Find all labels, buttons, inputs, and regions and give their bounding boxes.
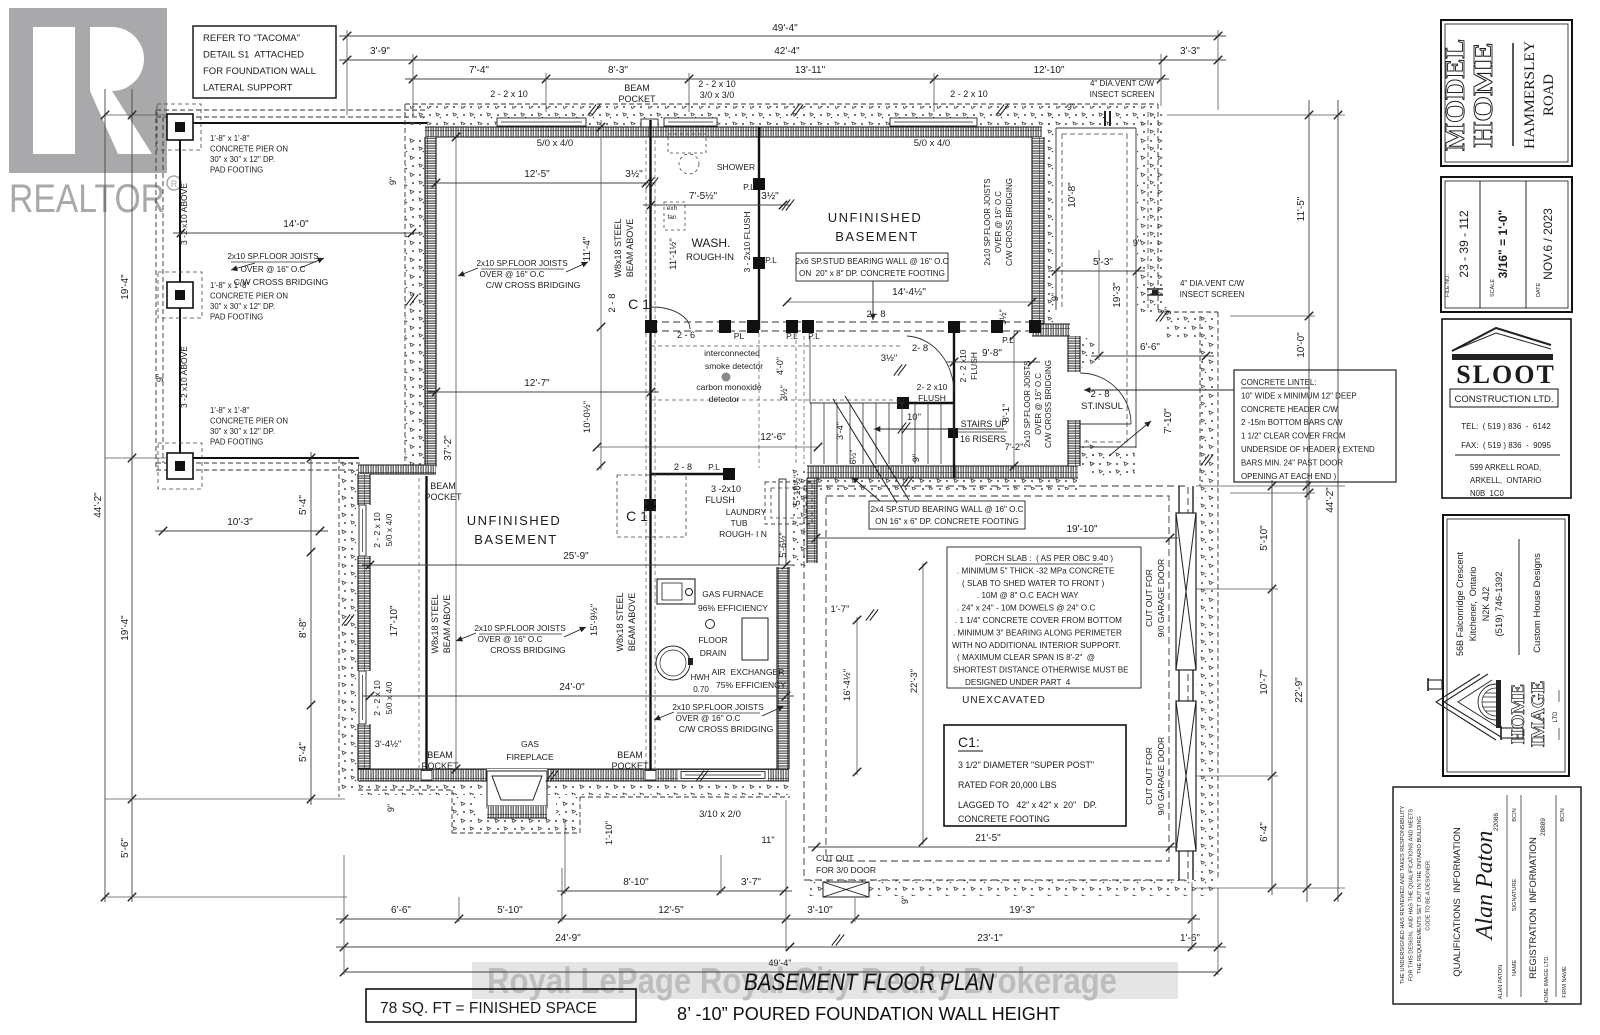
svg-text:THE UNDERSIGNED HAS REVIEWED A: THE UNDERSIGNED HAS REVIEWED AND TAKES R…: [1400, 805, 1406, 984]
svg-text:PAD FOOTING: PAD FOOTING: [210, 313, 263, 322]
svg-text:Kitchener, Ontario: Kitchener, Ontario: [1468, 567, 1478, 642]
svg-text:C/W CROSS BRIDGING: C/W CROSS BRIDGING: [1044, 360, 1053, 448]
svg-text:5'-10": 5'-10": [1259, 525, 1270, 551]
svg-text:9/0 GARAGE DOOR: 9/0 GARAGE DOOR: [1156, 559, 1166, 637]
svg-text:10'-3": 10'-3": [227, 517, 253, 528]
svg-text:OVER @ 16" O.C: OVER @ 16" O.C: [241, 265, 306, 274]
svg-text:6½": 6½": [848, 450, 858, 465]
svg-text:2 - 8: 2 - 8: [607, 293, 618, 312]
svg-text:3/10 x 2/0: 3/10 x 2/0: [699, 809, 741, 820]
svg-text:detector: detector: [709, 394, 740, 404]
svg-text:SHOWER: SHOWER: [717, 162, 755, 172]
svg-text:24'-9": 24'-9": [555, 933, 581, 944]
svg-text:UNDERSIDE OF HEADER ( EXTEND: UNDERSIDE OF HEADER ( EXTEND: [1241, 445, 1375, 454]
svg-text:ON 16" x 6" DP. CONCRETE FOOTI: ON 16" x 6" DP. CONCRETE FOOTING: [875, 517, 1019, 526]
svg-text:ARKELL, ONTARIO: ARKELL, ONTARIO: [1470, 476, 1541, 485]
svg-text:6'-4": 6'-4": [1259, 822, 1270, 842]
svg-text:CUT OUT: CUT OUT: [816, 853, 854, 863]
svg-text:. 24" x 24" - 10M DOWELS @ 24": . 24" x 24" - 10M DOWELS @ 24" O.C: [957, 604, 1095, 613]
svg-text:2 - 8: 2 - 8: [866, 309, 885, 320]
svg-text:C 1: C 1: [628, 296, 650, 312]
svg-text:P.L: P.L: [743, 182, 755, 192]
svg-text:10'-0": 10'-0": [1296, 332, 1307, 358]
svg-text:17'-10": 17'-10": [389, 605, 400, 636]
svg-text:3 - 2x10 FLUSH: 3 - 2x10 FLUSH: [742, 212, 752, 273]
svg-text:CUT OUT FOR: CUT OUT FOR: [1144, 747, 1154, 805]
svg-text:CONCRETE PIER ON: CONCRETE PIER ON: [210, 417, 288, 426]
svg-text:5/0 x 4/0: 5/0 x 4/0: [384, 681, 394, 714]
svg-text:R: R: [171, 179, 178, 189]
svg-text:PAD FOOTING: PAD FOOTING: [210, 438, 263, 447]
svg-text:P.L: P.L: [1002, 335, 1014, 345]
svg-text:REFER TO "TACOMA": REFER TO "TACOMA": [203, 33, 300, 44]
svg-text:3 -2x10: 3 -2x10: [711, 484, 741, 494]
svg-text:2 -15m BOTTOM BARS C/W: 2 -15m BOTTOM BARS C/W: [1241, 418, 1343, 427]
svg-text:2x10 SP.FLOOR JOISTS: 2x10 SP.FLOOR JOISTS: [474, 624, 566, 633]
svg-text:7'-5½": 7'-5½": [689, 191, 718, 202]
svg-text:1'-7": 1'-7": [831, 604, 850, 615]
svg-text:ROAD: ROAD: [1541, 74, 1557, 116]
svg-text:37'-2": 37'-2": [443, 435, 454, 461]
svg-text:SHORTEST DISTANCE OTHERWISE MU: SHORTEST DISTANCE OTHERWISE MUST BE: [953, 666, 1129, 675]
svg-text:3'-3": 3'-3": [1180, 46, 1200, 57]
svg-text:NAME: NAME: [1512, 960, 1518, 976]
svg-text:LAUNDRY: LAUNDRY: [726, 507, 767, 517]
svg-text:BARS MIN. 24" PAST DOOR: BARS MIN. 24" PAST DOOR: [1241, 458, 1343, 467]
svg-text:11": 11": [761, 835, 774, 846]
svg-text:3½": 3½": [625, 169, 643, 180]
svg-text:UNEXCAVATED: UNEXCAVATED: [962, 695, 1046, 706]
svg-text:9'-8": 9'-8": [982, 348, 1002, 359]
svg-text:11'-5": 11'-5": [1296, 196, 1307, 221]
svg-text:BCIN: BCIN: [1560, 808, 1566, 821]
svg-text:19'-10": 19'-10": [1066, 524, 1097, 535]
svg-text:21'-5": 21'-5": [975, 833, 1001, 844]
svg-text:24'-0": 24'-0": [559, 682, 585, 693]
svg-text:9": 9": [386, 804, 396, 812]
svg-text:2- 2 x10: 2- 2 x10: [917, 382, 948, 392]
svg-text:9/0 GARAGE DOOR: 9/0 GARAGE DOOR: [1156, 737, 1166, 815]
svg-text:smoke detector: smoke detector: [705, 361, 763, 371]
svg-text:ROUGH-IN: ROUGH-IN: [686, 252, 734, 263]
svg-text:2 - 8: 2 - 8: [674, 462, 692, 472]
svg-text:4" DIA.VENT C/W: 4" DIA.VENT C/W: [1180, 279, 1244, 288]
svg-text:3'-10": 3'-10": [807, 905, 833, 916]
svg-text:8'-1": 8'-1": [1001, 404, 1012, 423]
svg-text:DRAIN: DRAIN: [700, 648, 726, 658]
svg-text:1 1/2" CLEAR COVER FROM: 1 1/2" CLEAR COVER FROM: [1241, 432, 1346, 441]
svg-text:30" x 30" x 12" DP.: 30" x 30" x 12" DP.: [210, 155, 275, 164]
svg-text:3 -2 x10 ABOVE: 3 -2 x10 ABOVE: [179, 183, 189, 245]
svg-text:C 1: C 1: [626, 508, 648, 524]
svg-text:8'-3": 8'-3": [608, 65, 628, 76]
svg-text:22086: 22086: [1493, 813, 1500, 831]
svg-text:DESIGNED UNDER PART 4: DESIGNED UNDER PART 4: [965, 678, 1071, 687]
svg-text:P.L: P.L: [786, 331, 798, 341]
svg-text:96% EFFICIENCY: 96% EFFICIENCY: [698, 603, 768, 613]
svg-text:23'-1": 23'-1": [977, 933, 1003, 944]
svg-text:19'-4": 19'-4": [120, 615, 131, 641]
svg-text:2x10 SP.FLOOR JOISTS: 2x10 SP.FLOOR JOISTS: [672, 703, 764, 712]
svg-text:5'-6": 5'-6": [120, 838, 131, 858]
svg-text:3/16" = 1'-0": 3/16" = 1'-0": [1496, 210, 1510, 279]
svg-text:BEAM: BEAM: [427, 750, 453, 760]
svg-text:2 - 8: 2 - 8: [1090, 389, 1109, 400]
svg-text:. 1 1/4" CONCRETE COVER FROM B: . 1 1/4" CONCRETE COVER FROM BOTTOM: [955, 616, 1122, 625]
svg-text:56B Falconridge Crescent: 56B Falconridge Crescent: [1455, 551, 1465, 656]
svg-text:CONSTRUCTION LTD.: CONSTRUCTION LTD.: [1454, 394, 1553, 405]
svg-text:QUALIFICATIONS INFORMATION: QUALIFICATIONS INFORMATION: [1452, 827, 1463, 977]
svg-text:WASH.: WASH.: [692, 236, 731, 250]
svg-text:PAD FOOTING: PAD FOOTING: [210, 166, 263, 175]
svg-text:HWH: HWH: [690, 673, 709, 682]
svg-text:22'-3": 22'-3": [909, 669, 920, 693]
svg-text:. MINIMUM 5" THICK -32 MPa CON: . MINIMUM 5" THICK -32 MPa CONCRETE: [957, 566, 1115, 575]
svg-text:2 - 2 x 10: 2 - 2 x 10: [950, 89, 988, 99]
svg-text:N0B 1C0: N0B 1C0: [1470, 489, 1504, 498]
svg-text:10": 10": [907, 412, 921, 423]
svg-text:16'-4½": 16'-4½": [842, 669, 853, 701]
svg-text:REALTOR: REALTOR: [9, 177, 165, 221]
svg-text:19'-3": 19'-3": [1009, 905, 1035, 916]
svg-text:49'-4": 49'-4": [772, 23, 798, 34]
svg-text:7'-10": 7'-10": [1163, 408, 1174, 434]
svg-text:FLUSH: FLUSH: [918, 393, 946, 403]
svg-text:P.L: P.L: [708, 462, 720, 472]
svg-text:5'-4": 5'-4": [298, 742, 309, 762]
svg-text:( SLAB TO SHED WATER TO FRONT: ( SLAB TO SHED WATER TO FRONT ): [962, 579, 1105, 588]
svg-text:3'-4": 3'-4": [835, 422, 845, 440]
svg-text:OVER @ 16" O.C: OVER @ 16" O.C: [1034, 373, 1043, 435]
svg-text:POCKET: POCKET: [421, 761, 459, 771]
svg-text:CODE TO BE A DESIGNER.: CODE TO BE A DESIGNER.: [1426, 859, 1432, 931]
svg-text:Alan Paton: Alan Paton: [1472, 831, 1498, 942]
svg-text:30" x 30" x 12" DP.: 30" x 30" x 12" DP.: [210, 427, 275, 436]
svg-text:SLOOT: SLOOT: [1456, 360, 1556, 389]
svg-text:TEL: ( 519 ) 836 - 6142: TEL: ( 519 ) 836 - 6142: [1461, 422, 1551, 431]
svg-text:6'-6": 6'-6": [391, 905, 411, 916]
svg-text:7'-2": 7'-2": [1005, 442, 1024, 453]
svg-text:13'-11": 13'-11": [795, 65, 826, 76]
svg-text:BEAM: BEAM: [430, 481, 456, 491]
svg-text:POCKET: POCKET: [611, 761, 649, 771]
svg-text:. 10M @ 8" O.C EACH WAY: . 10M @ 8" O.C EACH WAY: [977, 591, 1079, 600]
svg-text:5'-10": 5'-10": [497, 905, 523, 916]
svg-text:2- 8: 2- 8: [912, 343, 928, 354]
svg-text:23 - 39 - 112: 23 - 39 - 112: [1457, 210, 1471, 277]
svg-text:C/W CROSS BRIDGING: C/W CROSS BRIDGING: [234, 277, 329, 287]
svg-text:10'-7": 10'-7": [1259, 669, 1270, 695]
svg-text:2x10 SP.FLOOR JOISTS: 2x10 SP.FLOOR JOISTS: [1023, 361, 1032, 448]
svg-text:5'-10½": 5'-10½": [792, 475, 802, 505]
svg-text:12'-10": 12'-10": [1033, 65, 1064, 76]
svg-text:12'-5": 12'-5": [524, 169, 550, 180]
svg-text:FLUSH: FLUSH: [705, 495, 735, 505]
svg-text:OVER @ 16" O.C: OVER @ 16" O.C: [480, 270, 545, 279]
svg-text:interconnected: interconnected: [704, 348, 760, 358]
svg-text:5/0 x 4/0: 5/0 x 4/0: [384, 513, 394, 546]
svg-text:W8x18 STEEL: W8x18 STEEL: [430, 594, 440, 653]
svg-text:ROUGH- I N: ROUGH- I N: [719, 529, 767, 539]
svg-text:ALAN PATON: ALAN PATON: [1498, 965, 1504, 1000]
svg-text:2x10 SP.FLOOR JOISTS: 2x10 SP.FLOOR JOISTS: [983, 179, 992, 266]
svg-text:FIREPLACE: FIREPLACE: [506, 752, 554, 762]
svg-text:78 SQ. FT = FINISHED SPACE: 78 SQ. FT = FINISHED SPACE: [380, 1000, 597, 1017]
svg-text:3'-7": 3'-7": [741, 877, 761, 888]
svg-text:DETAIL S1 ATTACHED: DETAIL S1 ATTACHED: [203, 50, 304, 61]
svg-text:FOR THIS DESIGN, AND HAS THE: FOR THIS DESIGN, AND HAS THE QUALIFICATI…: [1409, 808, 1415, 981]
svg-text:7'-4": 7'-4": [469, 65, 489, 76]
svg-text:44'-2": 44'-2": [1325, 487, 1336, 513]
svg-text:CONCRETE HEADER C/W: CONCRETE HEADER C/W: [1241, 405, 1338, 414]
svg-text:6'-6": 6'-6": [1140, 342, 1160, 353]
svg-text:5/0 x 4/0: 5/0 x 4/0: [914, 138, 950, 149]
svg-text:C/W CROSS BRIDGING: C/W CROSS BRIDGING: [1005, 178, 1014, 266]
svg-text:10" WIDE x MINIMUM 12" DEEP: 10" WIDE x MINIMUM 12" DEEP: [1241, 391, 1357, 400]
svg-text:INSECT SCREEN: INSECT SCREEN: [1180, 290, 1245, 299]
svg-text:OPENING AT EACH END ): OPENING AT EACH END ): [1241, 472, 1337, 481]
svg-text:N2K 4J2: N2K 4J2: [1481, 587, 1491, 622]
svg-text:9": 9": [155, 374, 165, 382]
svg-text:14'-4½": 14'-4½": [892, 287, 926, 298]
svg-text:( MAXIMUM CLEAR SPAN IS 8'-2": ( MAXIMUM CLEAR SPAN IS 8'-2" @: [957, 653, 1095, 662]
svg-text:3½": 3½": [779, 385, 789, 401]
svg-text:2 - 2 x 10: 2 - 2 x 10: [372, 680, 382, 716]
svg-text:PL: PL: [734, 331, 745, 341]
svg-text:9": 9": [1067, 102, 1075, 112]
svg-text:42'-4": 42'-4": [774, 46, 800, 57]
svg-text:9": 9": [911, 454, 921, 462]
svg-text:HOME: HOME: [1508, 684, 1529, 744]
svg-text:1'-6": 1'-6": [1180, 933, 1200, 944]
svg-text:C/W CROSS BRIDGING: C/W CROSS BRIDGING: [486, 280, 581, 290]
svg-text:3/0 x 3/0: 3/0 x 3/0: [700, 90, 735, 100]
svg-text:CONCRETE FOOTING: CONCRETE FOOTING: [958, 814, 1050, 824]
svg-text:2x10 SP.FLOOR JOISTS: 2x10 SP.FLOOR JOISTS: [476, 259, 568, 268]
svg-text:GAS FURNACE: GAS FURNACE: [702, 589, 764, 599]
svg-text:3½": 3½": [761, 191, 779, 202]
svg-text:FIRM NAME: FIRM NAME: [1562, 966, 1568, 998]
svg-text:FAX: ( 519 ) 836 - 9095: FAX: ( 519 ) 836 - 9095: [1461, 441, 1551, 450]
svg-text:LAGGED TO 42" x 42" x 20": LAGGED TO 42" x 42" x 20" DP.: [958, 800, 1097, 810]
svg-text:5'-4": 5'-4": [298, 495, 309, 515]
svg-text:BCIN: BCIN: [1512, 808, 1518, 821]
svg-text:LTD: LTD: [1553, 711, 1559, 723]
svg-text:2x6 SP.STUD BEARING WALL @ 16": 2x6 SP.STUD BEARING WALL @ 16" O.C: [796, 257, 949, 266]
svg-text:RATED FOR 20,000 LBS: RATED FOR 20,000 LBS: [958, 780, 1057, 790]
svg-text:5½": 5½": [998, 309, 1008, 325]
svg-text:19'-4": 19'-4": [120, 274, 131, 300]
svg-text:16 RISERS: 16 RISERS: [960, 434, 1006, 444]
svg-text:3'-4½": 3'-4½": [375, 739, 402, 750]
svg-text:(519) 746-1392: (519) 746-1392: [1494, 572, 1505, 637]
svg-text:75% EFFICIENCY: 75% EFFICIENCY: [716, 680, 786, 690]
svg-text:OVER @ 16" O.C: OVER @ 16" O.C: [994, 191, 1003, 253]
svg-text:BEAM ABOVE: BEAM ABOVE: [442, 595, 452, 654]
svg-text:Custom House Designs: Custom House Designs: [1532, 553, 1543, 653]
svg-text:C1:: C1:: [958, 734, 980, 750]
svg-text:9": 9": [1133, 238, 1141, 248]
svg-text:CROSS BRIDGING: CROSS BRIDGING: [490, 645, 566, 655]
svg-text:5'-6½": 5'-6½": [778, 532, 788, 557]
svg-text:BEAM ABOVE: BEAM ABOVE: [625, 219, 635, 278]
svg-text:4" DIA.VENT C/W: 4" DIA.VENT C/W: [1090, 79, 1154, 88]
svg-text:12'-7": 12'-7": [524, 378, 550, 389]
svg-text:HOME IMAGE LTD.: HOME IMAGE LTD.: [1544, 955, 1550, 1005]
svg-text:BASEMENT: BASEMENT: [474, 532, 558, 547]
svg-text:carbon monoxide: carbon monoxide: [696, 382, 761, 392]
svg-text:10'-8": 10'-8": [1067, 182, 1078, 208]
svg-text:8’ -10” POURED FOUNDATION WALL: 8’ -10” POURED FOUNDATION WALL HEIGHT: [677, 1004, 1060, 1024]
svg-text:49'-4": 49'-4": [769, 958, 792, 968]
svg-text:1'-8" x 1'-8": 1'-8" x 1'-8": [210, 406, 250, 415]
svg-text:POCKET: POCKET: [618, 94, 656, 104]
svg-text:30" x 30" x 12" DP.: 30" x 30" x 12" DP.: [210, 302, 275, 311]
svg-text:CUT OUT FOR: CUT OUT FOR: [1144, 569, 1154, 627]
svg-text:SCALE: SCALE: [1490, 279, 1496, 297]
svg-text:UNFINISHED: UNFINISHED: [828, 210, 922, 225]
svg-text:PORCH SLAB : ( AS PER OBC 9.4: PORCH SLAB : ( AS PER OBC 9.40 ): [975, 554, 1113, 563]
svg-text:15'-9½": 15'-9½": [589, 604, 600, 636]
svg-text:SIGNATURE: SIGNATURE: [1512, 879, 1518, 911]
svg-text:4'-0": 4'-0": [775, 357, 785, 375]
svg-text:44'-2": 44'-2": [93, 492, 104, 518]
svg-text:FLUSH: FLUSH: [969, 352, 979, 380]
svg-text:2x4 SP.STUD BEARING WALL @ 16": 2x4 SP.STUD BEARING WALL @ 16" O.C: [871, 505, 1024, 514]
svg-text:10'-0½": 10'-0½": [582, 401, 593, 433]
svg-text:OVER @ 16" O.C: OVER @ 16" O.C: [478, 635, 543, 644]
svg-text:NOV.6 / 2023: NOV.6 / 2023: [1541, 208, 1555, 280]
svg-text:P.L: P.L: [765, 255, 777, 265]
svg-text:BEAM: BEAM: [624, 83, 650, 93]
svg-text:3½": 3½": [881, 353, 898, 364]
svg-text:CONCRETE PIER ON: CONCRETE PIER ON: [210, 145, 288, 154]
svg-text:HAMMERSLEY: HAMMERSLEY: [1522, 41, 1538, 149]
svg-text:1'-10": 1'-10": [604, 821, 615, 845]
svg-text:2 - 2 x 10: 2 - 2 x 10: [490, 89, 528, 99]
svg-text:11'-4": 11'-4": [582, 236, 593, 261]
svg-text:BEAM ABOVE: BEAM ABOVE: [627, 593, 637, 652]
svg-text:12'-5": 12'-5": [658, 905, 684, 916]
svg-text:2 - 2 x 10: 2 - 2 x 10: [372, 512, 382, 548]
svg-text:. MINIMUM 3" BEARING ALONG PER: . MINIMUM 3" BEARING ALONG PERIMETER: [953, 628, 1122, 637]
svg-text:3 1/2" DIAMETER "SUPER POST": 3 1/2" DIAMETER "SUPER POST": [958, 760, 1094, 770]
svg-text:11'-1½": 11'-1½": [668, 238, 679, 269]
svg-text:8'-8": 8'-8": [298, 618, 309, 638]
svg-text:exh: exh: [667, 205, 678, 212]
svg-text:fan: fan: [667, 214, 676, 221]
svg-text:9": 9": [900, 896, 910, 904]
svg-text:LATERAL SUPPORT: LATERAL SUPPORT: [203, 83, 293, 94]
svg-text:CONCRETE LINTEL:: CONCRETE LINTEL:: [1241, 378, 1316, 387]
svg-text:9": 9": [388, 177, 398, 185]
svg-text:BASEMENT: BASEMENT: [835, 229, 919, 244]
svg-text:2 - 2 x 10: 2 - 2 x 10: [698, 79, 736, 89]
svg-text:HOME: HOME: [1468, 43, 1498, 148]
svg-text:14'-0": 14'-0": [283, 219, 309, 230]
svg-text:9": 9": [1050, 293, 1060, 301]
svg-text:8'-10": 8'-10": [623, 877, 649, 888]
svg-text:1'-8" x 1'-8": 1'-8" x 1'-8": [210, 134, 250, 143]
svg-text:BASEMENT FLOOR PLAN: BASEMENT FLOOR PLAN: [744, 969, 995, 996]
svg-text:5'-3": 5'-3": [1093, 257, 1113, 268]
svg-text:BEAM: BEAM: [617, 750, 643, 760]
svg-text:AIR EXCHANGER: AIR EXCHANGER: [712, 667, 785, 677]
svg-text:FLOOR: FLOOR: [698, 635, 727, 645]
svg-text:W8x18 STEEL: W8x18 STEEL: [615, 592, 625, 651]
svg-text:INSECT SCREEN: INSECT SCREEN: [1090, 90, 1155, 99]
svg-text:19'-3": 19'-3": [1112, 282, 1123, 308]
svg-text:GAS: GAS: [521, 739, 539, 749]
svg-text:OVER @ 16" O.C: OVER @ 16" O.C: [676, 714, 741, 723]
svg-text:WITH NO ADDITIONAL INTERIOR SU: WITH NO ADDITIONAL INTERIOR SUPPORT.: [952, 641, 1121, 650]
svg-text:2 - 6: 2 - 6: [677, 330, 695, 340]
svg-text:5/0 x 4/0: 5/0 x 4/0: [537, 138, 573, 149]
svg-text:TUB: TUB: [731, 518, 748, 528]
svg-text:3 -2 x10 ABOVE: 3 -2 x10 ABOVE: [179, 346, 189, 408]
svg-text:ST.INSUL: ST.INSUL: [1081, 401, 1123, 412]
svg-text:2x10 SP.FLOOR JOISTS: 2x10 SP.FLOOR JOISTS: [227, 252, 319, 261]
svg-text:0.70: 0.70: [693, 685, 709, 694]
svg-text:25'-9": 25'-9": [563, 551, 589, 562]
svg-text:IMAGE: IMAGE: [1528, 681, 1549, 748]
svg-text:THE REQUIREMENTS SET OUT IN TH: THE REQUIREMENTS SET OUT IN THE ONTARIO …: [1417, 816, 1423, 974]
svg-text:W8x18 STEEL: W8x18 STEEL: [613, 218, 623, 277]
svg-text:CONCRETE PIER ON: CONCRETE PIER ON: [210, 292, 288, 301]
svg-text:22'-9": 22'-9": [1294, 677, 1305, 703]
svg-text:2 - 2 x10: 2 - 2 x10: [958, 349, 968, 382]
svg-text:C/W CROSS BRIDGING: C/W CROSS BRIDGING: [679, 724, 774, 734]
svg-text:UNFINISHED: UNFINISHED: [467, 513, 561, 528]
svg-text:3'-9": 3'-9": [370, 46, 390, 57]
svg-text:REGISTRATION INFORMATION: REGISTRATION INFORMATION: [1528, 837, 1539, 979]
svg-text:FOR 3/0 DOOR: FOR 3/0 DOOR: [816, 865, 876, 875]
svg-text:DATE: DATE: [1536, 282, 1542, 297]
svg-text:FILE NO:: FILE NO:: [1445, 274, 1451, 297]
svg-text:599 ARKELL ROAD,: 599 ARKELL ROAD,: [1470, 463, 1541, 472]
svg-text:MODEL: MODEL: [1440, 39, 1470, 151]
svg-text:12'-6": 12'-6": [760, 432, 786, 443]
svg-text:ON 20" x 8" DP. CONCRETE FOOT: ON 20" x 8" DP. CONCRETE FOOTING: [799, 269, 945, 278]
svg-text:FOR FOUNDATION WALL: FOR FOUNDATION WALL: [203, 66, 316, 77]
svg-text:28889: 28889: [1540, 818, 1547, 836]
